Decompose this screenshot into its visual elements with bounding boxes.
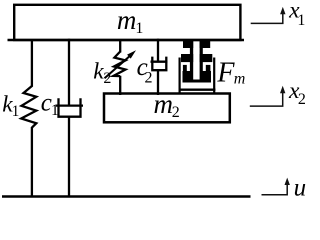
svg-text:2: 2	[298, 91, 306, 108]
svg-text:1: 1	[135, 20, 143, 37]
svg-text:2: 2	[172, 104, 180, 121]
damper c1 rod bottom	[68, 117, 70, 197]
mass m1 box	[14, 5, 240, 40]
actuator Fm: white slot in cup	[193, 71, 199, 80]
damper c1 rod top	[68, 39, 70, 105]
actuator Fm: left inner column	[190, 40, 193, 83]
svg-text:u: u	[294, 175, 307, 199]
x1 arrow	[251, 13, 283, 23]
actuator bracket bottom bar	[179, 89, 216, 91]
svg-text:m: m	[234, 71, 246, 88]
actuator bracket right wall	[213, 58, 215, 95]
actuator Fm: outer cup wall right	[206, 65, 211, 83]
spring k1 zigzag	[21, 86, 36, 128]
variable-stiffness arrow over k2	[105, 56, 130, 78]
spring k2 wire bottom	[119, 76, 121, 95]
actuator Fm: mid tooth left	[181, 54, 193, 62]
svg-text:1: 1	[297, 12, 305, 29]
actuator Fm: top tooth right	[200, 40, 211, 48]
actuator bracket left wall	[179, 58, 181, 95]
actuator Fm: outer cup wall left	[183, 65, 187, 83]
svg-text:m: m	[117, 5, 136, 35]
svg-text:1: 1	[51, 102, 59, 119]
svg-text:2: 2	[103, 70, 111, 87]
ground line	[2, 195, 251, 198]
actuator Fm: right inner column	[200, 40, 203, 83]
svg-text:2: 2	[145, 70, 153, 87]
damper c2 rod top	[157, 39, 159, 61]
svg-text:1: 1	[12, 103, 20, 120]
svg-text:m: m	[154, 89, 174, 119]
x2 arrow	[250, 93, 283, 106]
spring k2 wire top	[119, 40, 121, 53]
damper c2 cylinder cup	[152, 57, 166, 71]
svg-text:F: F	[216, 58, 235, 89]
actuator Fm: mid tooth right	[200, 54, 213, 62]
mass m2 box	[104, 94, 230, 123]
damper c2 piston plate	[151, 61, 168, 63]
actuator Fm: top tooth left	[183, 40, 193, 48]
spring k2 zigzag	[114, 52, 126, 77]
damper c1 cylinder cup	[59, 98, 81, 116]
damper c2 rod bottom	[157, 70, 159, 95]
u arrow	[262, 184, 288, 195]
damper c1 piston plate	[56, 104, 83, 106]
m1 bottom plate line	[8, 39, 245, 41]
spring k1 wire bottom	[31, 127, 33, 197]
spring k1 wire top	[31, 40, 33, 87]
actuator Fm: cup bottom block	[183, 71, 212, 83]
